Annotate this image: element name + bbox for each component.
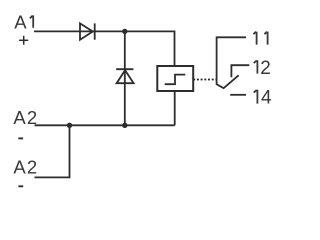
polarity label + bbox=[19, 36, 28, 45]
relay coil box bbox=[157, 66, 193, 91]
svg-text:A: A bbox=[14, 11, 27, 32]
polarity label - upper bbox=[18, 137, 23, 139]
wire A2 rail bbox=[35, 124, 175, 126]
node junction on A1 rail bbox=[122, 29, 127, 34]
wire lower A2 terminal to A2 rail bbox=[35, 125, 70, 177]
node junction diode branch on A2 rail bbox=[122, 123, 127, 128]
hysteresis step symbol bbox=[165, 75, 186, 85]
wire freewheeling diode branch bbox=[124, 31, 126, 125]
dashed mechanical link coil to contact bbox=[193, 79, 216, 81]
terminal label A2 lower bbox=[13, 157, 37, 178]
contact NO stub 14 bbox=[230, 94, 246, 96]
terminal label 12 bbox=[254, 58, 271, 79]
terminal label A2 upper bbox=[13, 107, 37, 128]
wire A1 rail to coil top corner bbox=[34, 31, 175, 66]
svg-text:A: A bbox=[13, 107, 26, 128]
terminal label A1 bbox=[14, 11, 33, 32]
freewheeling diode bbox=[116, 69, 133, 83]
terminal label 14 bbox=[254, 88, 272, 109]
contact NC stub 12 bbox=[231, 65, 249, 77]
svg-text:A: A bbox=[13, 157, 26, 178]
svg-text:4: 4 bbox=[261, 88, 272, 109]
polarity label - lower bbox=[18, 185, 23, 187]
contact common 11 with movable arm bbox=[217, 37, 246, 88]
svg-text:2: 2 bbox=[260, 58, 271, 79]
series diode bbox=[80, 23, 95, 39]
wire coil bottom to A2 rail bbox=[174, 91, 176, 125]
svg-text:2: 2 bbox=[27, 157, 37, 178]
node junction A2 branch bbox=[67, 123, 72, 128]
terminal label 11 bbox=[253, 32, 267, 45]
